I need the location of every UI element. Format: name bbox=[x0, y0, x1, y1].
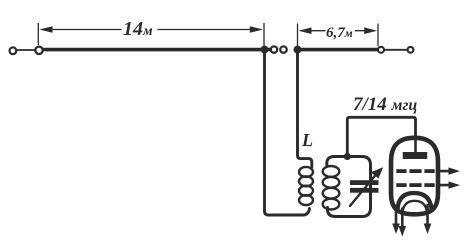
svg-text:7/14 мгц: 7/14 мгц bbox=[353, 94, 417, 115]
svg-text:14м: 14м bbox=[123, 18, 153, 40]
svg-text:6,7м: 6,7м bbox=[326, 25, 353, 41]
svg-text:L: L bbox=[301, 130, 313, 150]
